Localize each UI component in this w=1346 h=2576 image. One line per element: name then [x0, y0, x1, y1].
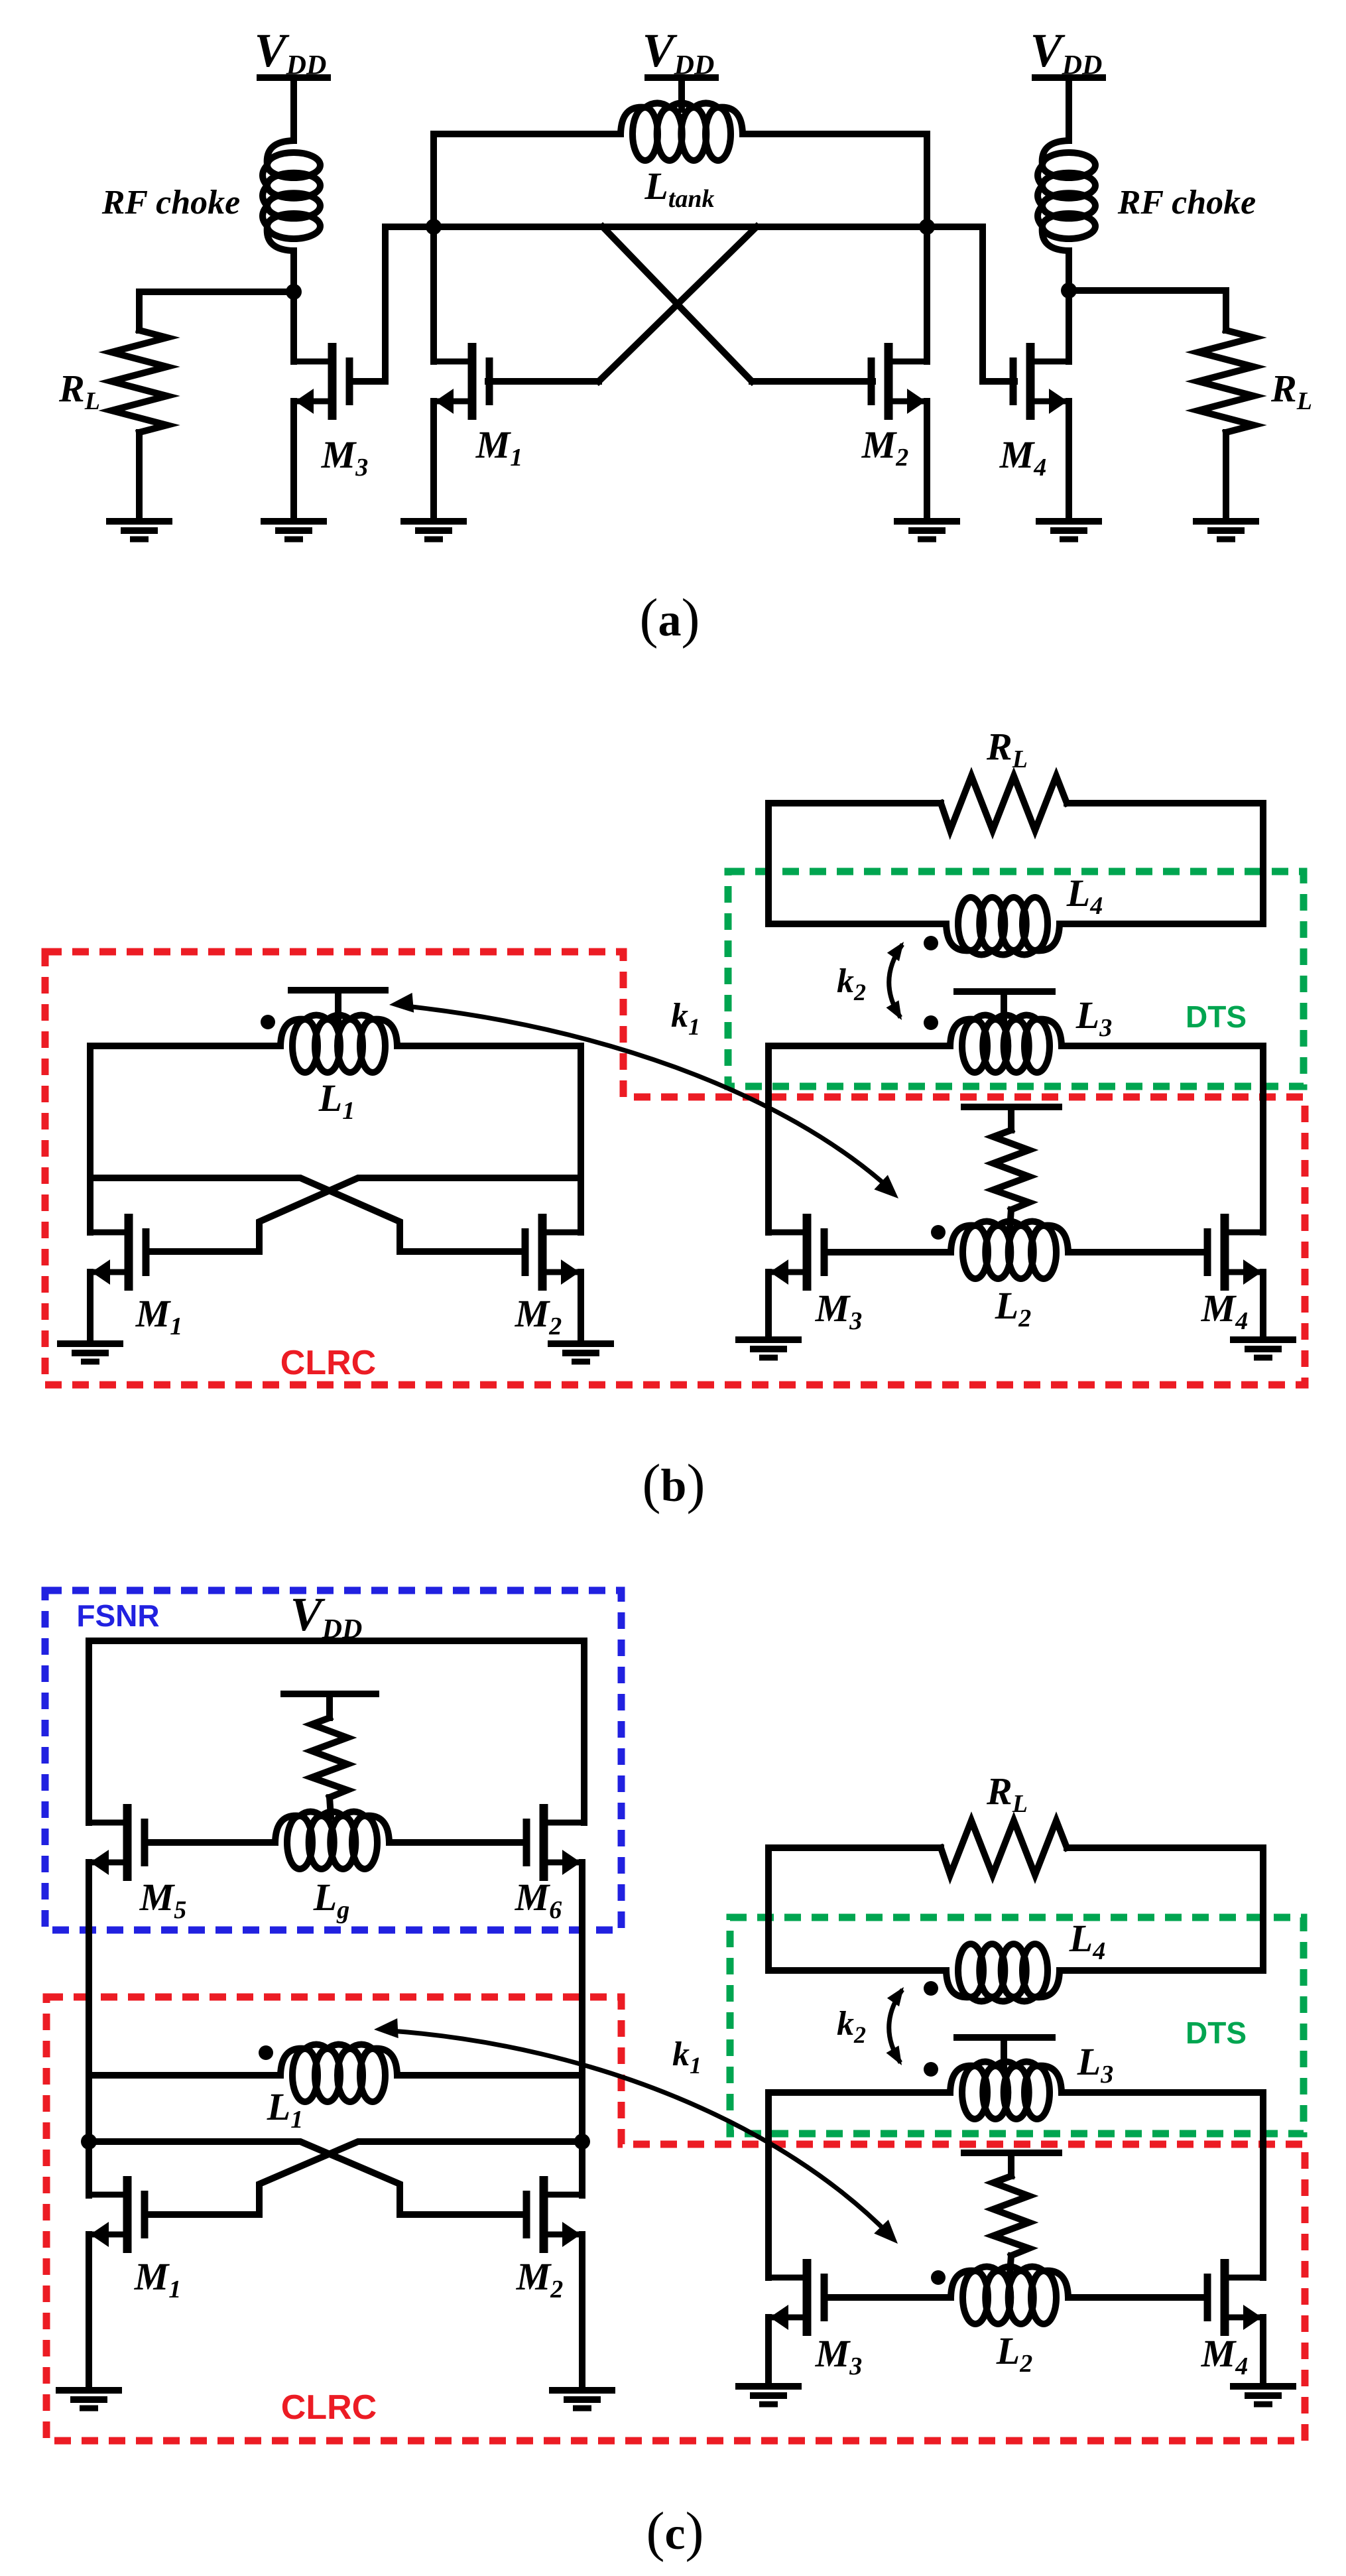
FSNR dashed boundary box (c) [45, 1590, 621, 1930]
polarity dot polarity dot L2 (c) [931, 2270, 946, 2285]
inductor L4 (b) [958, 897, 983, 950]
wire cross diag B (a) [599, 227, 757, 381]
ground M4 (c) [1230, 2386, 1296, 2404]
ground RL right [1193, 521, 1259, 539]
inductor Lg (c) [287, 1816, 312, 1869]
wire M4 gate wire (c) [1068, 2294, 1207, 2301]
svg-text:CLRC: CLRC [280, 1344, 376, 1382]
wire resistor RL left zigzag [111, 330, 167, 432]
wire rail2 (a) [385, 224, 983, 230]
arrowhead k1 left (b) [389, 993, 414, 1013]
wire M4 source down [1066, 401, 1072, 519]
svg-text:RF choke: RF choke [101, 184, 241, 222]
polarity dot polarity dot L1 (c) [259, 2045, 273, 2060]
wire L4 lead left (c) [768, 1967, 946, 1974]
transistor M1 (a) [434, 343, 489, 420]
supply bar L1 T-bar (b) [291, 987, 385, 994]
node node drain M4 [1061, 283, 1077, 298]
polarity dot polarity dot L4 (b) [924, 936, 938, 950]
wire res bottom lead (c) [1010, 2256, 1011, 2273]
transistor M6 (c) [526, 1804, 582, 1881]
wire FSNR top rail (c) [89, 1638, 584, 1644]
wire rail mid right (c) [1062, 2089, 1263, 2096]
transistor M3 (b) [768, 1214, 824, 1291]
wire M2 drain vertical [924, 134, 930, 361]
wire rail mid left (c) [768, 2089, 950, 2096]
wire M5 drain vertical (c) [86, 1641, 92, 1823]
wire M3 gate wire [349, 227, 385, 381]
coupling arrow k1 (b) [406, 1006, 892, 1191]
wire M1 source down (b) [87, 1272, 93, 1341]
svg-text:RF choke: RF choke [1117, 184, 1256, 222]
coupling arc k2 (b) [889, 944, 902, 1017]
CLRC dashed boundary box (b) [45, 952, 1305, 1385]
coupling arrow k1 (c) [391, 2031, 890, 2235]
wire L3 T stub (b) [1001, 992, 1007, 1023]
wire M2 gate wire [752, 378, 873, 385]
inductor L1 (c) [292, 2049, 318, 2102]
transistor M4 (a) [1013, 343, 1069, 420]
supply bar L3 T-bar (c) [957, 2034, 1052, 2041]
ground M3 (b) [735, 1340, 802, 1358]
wire M1 source down (c) [86, 2234, 92, 2388]
inductor L3 (b) [962, 1019, 987, 1072]
wire resistor FSNR zigzag [312, 1718, 347, 1797]
wire rail mid left (b) [768, 1043, 950, 1049]
supply bar res T-bar FSNR (c) [284, 1691, 376, 1697]
wire resistor tail (c) zigzag [993, 2176, 1029, 2256]
ground RL left [106, 521, 172, 539]
wire M3 source down (c) [765, 2317, 772, 2384]
transistor M4 (c) [1207, 2259, 1263, 2336]
wire RL left top lead [136, 292, 143, 330]
wire M3 gate wire (c) [824, 2294, 951, 2301]
wire M4 source down (b) [1260, 1272, 1266, 1337]
wire cross right-to-M1gate (c) [145, 2142, 582, 2215]
wire M2 source down (b) [578, 1272, 584, 1341]
wire L4 lead right (c) [1060, 1967, 1263, 1974]
wire RL right top lead [1223, 290, 1229, 330]
wire M5 gate wire (c) [145, 1839, 275, 1846]
wire rail1 right (a) [743, 131, 927, 137]
ground M2 (a) [894, 521, 960, 539]
arrowhead k1 right (b) [874, 1175, 898, 1199]
wire M1 source down [430, 401, 437, 519]
wire res T stub (c) [1008, 2153, 1014, 2176]
polarity dot polarity dot L1 (b) [261, 1015, 275, 1029]
wire L4 lead left (b) [768, 921, 946, 927]
wire cross left-to-M2gate (b) [90, 1178, 525, 1252]
wire rail1 right seg (c) [397, 2072, 582, 2079]
wire rail mid right (b) [1062, 1043, 1263, 1049]
wire cross left-to-M2gate (c) [89, 2142, 526, 2215]
inductor L3 (c) [962, 2066, 987, 2119]
svg-text:(a): (a) [640, 588, 700, 649]
wire M4 gate wire [983, 227, 1014, 381]
node node rail2 left (c) [81, 2134, 97, 2150]
wire RL left bottom lead [136, 432, 143, 519]
wire M4 gate wire (b) [1068, 1249, 1207, 1256]
wire resistor tail (b) zigzag [993, 1130, 1029, 1210]
wire RL loop left (b) [768, 803, 941, 924]
supply bar VDD bar right (a) [1035, 74, 1103, 81]
inductor L1 (b) [292, 1019, 318, 1072]
node node rail2 left [426, 219, 442, 235]
ground M2 (c) [549, 2390, 615, 2408]
ground M3 (c) [735, 2386, 802, 2404]
transistor M2 (c) [526, 2176, 582, 2253]
wire M6 gate wire (c) [389, 1839, 526, 1846]
wire left vertical (b) [87, 1046, 93, 1232]
transistor M2 (b) [525, 1214, 581, 1291]
wire M3 source down (b) [765, 1272, 772, 1337]
wire L1 T stub (b) [335, 990, 341, 1021]
wire M3 drain vertical (c) [765, 2093, 772, 2278]
wire choke right bottom [1066, 251, 1072, 361]
supply bar L3 T-bar (b) [957, 988, 1052, 995]
wire M2 source down [924, 401, 930, 519]
wire M4 drain vertical (b) [1260, 1046, 1266, 1232]
polarity dot polarity dot L3 (b) [924, 1015, 938, 1030]
wire M1 gate wire [488, 378, 599, 385]
arrowhead k2 top (b) [887, 942, 904, 961]
wire M6 source down (c) [579, 1862, 585, 2195]
transistor M1 (c) [89, 2176, 145, 2253]
wire L3 T stub (c) [1001, 2037, 1007, 2069]
transistor M3 (a) [294, 343, 349, 420]
wire M2 source down (c) [579, 2234, 585, 2388]
supply bar res T-bar (b) [964, 1104, 1059, 1110]
wire choke left bottom [290, 251, 297, 361]
transistor M2 (a) [871, 343, 927, 420]
polarity dot polarity dot L4 (c) [924, 1981, 938, 1996]
svg-text:DTS: DTS [1186, 2016, 1247, 2050]
wire res bottom lead (b) [1010, 1210, 1011, 1228]
polarity dot polarity dot L2 (b) [931, 1225, 946, 1240]
coupling arc k2 (c) [889, 1990, 902, 2063]
ground M1 (c) [56, 2390, 122, 2408]
wire M6 drain vertical (c) [581, 1641, 587, 1823]
wire M4 drain vertical (c) [1260, 2093, 1266, 2278]
wire res T stub (b) [1008, 1107, 1014, 1130]
wire resistor RL (c) zigzag [941, 1821, 1067, 1875]
arrowhead k1 right (c) [874, 2220, 898, 2244]
wire res T stub FSNR (c) [326, 1694, 333, 1718]
wire cross diag A (a) [603, 227, 752, 381]
wire L4 lead right (b) [1060, 921, 1263, 927]
polarity dot polarity dot L3 (c) [924, 2062, 938, 2077]
wire res bottom lead FSNR [330, 1797, 331, 1817]
DTS dashed boundary box (b) [728, 871, 1304, 1086]
transistor M4 (b) [1207, 1214, 1263, 1291]
node node rail2 right (c) [574, 2134, 590, 2150]
inductor L2 (c) [963, 2271, 988, 2324]
wire RL loop right (b) [1067, 803, 1263, 924]
node node drain M3 [286, 284, 302, 300]
arrowhead k2 top (c) [887, 1987, 904, 2006]
transistor M5 (c) [89, 1804, 145, 1881]
inductor RF choke right [1042, 153, 1095, 178]
ground M3 (a) [261, 521, 327, 539]
wire rail1 left seg (b) [90, 1043, 280, 1049]
wire right vertical (b) [578, 1046, 584, 1232]
wire cross right-to-M1gate (b) [146, 1178, 581, 1252]
ground M1 (b) [57, 1344, 123, 1362]
wire M3 gate wire (b) [824, 1249, 951, 1256]
wire RL loop left (c) [768, 1848, 941, 1970]
wire to RL left [139, 289, 294, 295]
arrowhead k1 left (c) [374, 2018, 398, 2038]
wire RL right bottom lead [1223, 432, 1229, 519]
svg-text:(b): (b) [642, 1453, 705, 1515]
svg-text:(c): (c) [646, 2501, 704, 2563]
wire M3 drain vertical (b) [765, 1046, 772, 1232]
wire rail1 left (a) [434, 131, 621, 137]
wire resistor RL (b) zigzag [941, 776, 1067, 830]
svg-text:FSNR: FSNR [76, 1598, 159, 1633]
wire VDD stub left (a) [290, 78, 297, 141]
wire RL loop right (c) [1067, 1848, 1263, 1970]
svg-text:DTS: DTS [1186, 999, 1247, 1034]
supply bar VDD bar center (a) [648, 74, 715, 81]
transistor M1 (b) [90, 1214, 146, 1291]
inductor L2 (b) [963, 1226, 988, 1279]
arrowhead k2 bottom (c) [887, 2045, 902, 2065]
ground M2 (b) [548, 1344, 614, 1362]
arrowhead k2 bottom (b) [887, 1000, 902, 1020]
wire VDD stub center (a) [678, 78, 685, 109]
wire rail1 left seg (c) [89, 2072, 280, 2079]
supply bar res T-bar (c) [964, 2150, 1059, 2156]
wire M3 source down [290, 401, 297, 519]
supply bar VDD bar left (a) [260, 74, 328, 81]
wire M1 drain vertical [430, 134, 437, 361]
wire M5 source down (c) [86, 1862, 92, 2195]
inductor L4 (c) [958, 1944, 983, 1997]
svg-text:CLRC: CLRC [281, 2388, 377, 2427]
ground M1 (a) [400, 521, 467, 539]
DTS dashed boundary box (c) [730, 1917, 1304, 2134]
wire M4 source down (c) [1260, 2317, 1266, 2384]
node node rail2 right [919, 219, 935, 235]
CLRC dashed boundary box (c) [46, 1997, 1305, 2441]
wire to RL right [1069, 287, 1226, 294]
inductor L_tank [633, 107, 658, 161]
inductor RF choke left [267, 153, 320, 178]
wire rail1 right seg (b) [397, 1043, 581, 1049]
transistor M3 (c) [768, 2259, 824, 2336]
wire VDD stub right (a) [1066, 78, 1072, 141]
ground M4 (a) [1036, 521, 1102, 539]
ground M4 (b) [1230, 1340, 1296, 1358]
wire resistor RL right zigzag [1198, 330, 1254, 432]
